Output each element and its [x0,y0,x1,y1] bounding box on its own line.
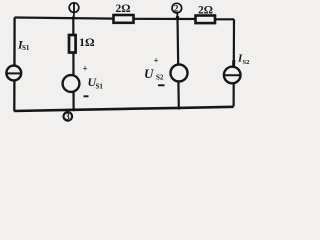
wire [215,18,234,20]
svg-text:+: + [83,64,88,74]
svg-text:S1: S1 [22,44,30,52]
current source IS1 [6,66,21,81]
node 1 [69,3,79,20]
resistor R2 [196,16,216,24]
wire [72,18,74,110]
resistor R1 [114,15,134,23]
node 3 [64,108,76,122]
wire [133,18,196,20]
wire [233,19,236,106]
current source IS2 [224,67,241,84]
node 2 [172,3,182,19]
svg-text:1Ω: 1Ω [79,35,95,49]
svg-text:S2: S2 [243,59,250,66]
wire [13,18,16,112]
svg-text:3: 3 [65,112,70,122]
svg-text:2Ω: 2Ω [116,3,131,15]
wire [178,17,179,108]
resistor R3 [69,35,76,53]
svg-text:S1: S1 [96,83,104,91]
wire [14,107,233,111]
svg-text:U: U [144,66,154,81]
wire [232,60,235,66]
node junction US2 bottom [177,106,180,109]
svg-text:2Ω: 2Ω [198,5,213,17]
voltage source US2 [171,65,188,82]
wire [15,18,115,19]
label − US1 [84,95,89,97]
voltage source US1 [63,75,80,92]
label − US2 [158,84,165,86]
svg-text:S2: S2 [156,74,164,82]
svg-text:+: + [154,56,159,66]
